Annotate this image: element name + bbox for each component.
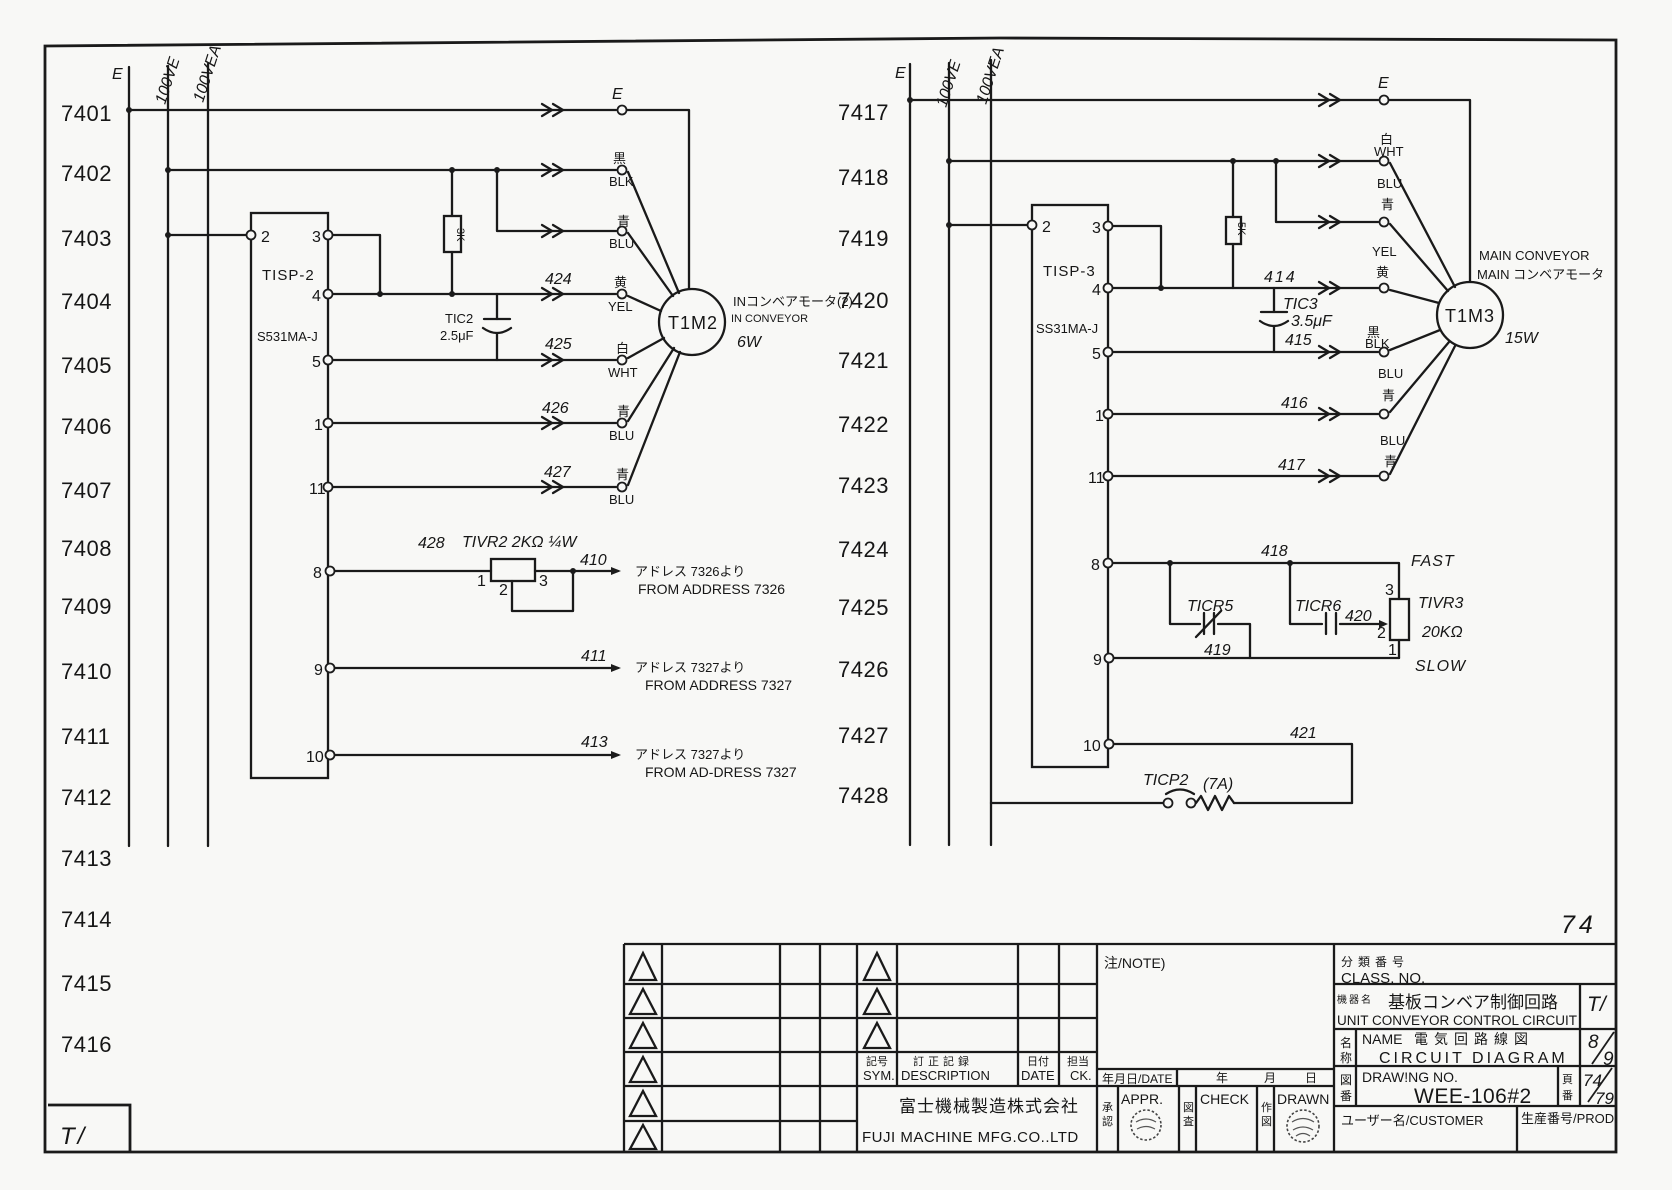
pin 2 xyxy=(247,231,256,240)
wire 7419 rail to pin2 xyxy=(949,224,1028,226)
svg-text:10: 10 xyxy=(1083,738,1101,755)
svg-text:訂正記録: 訂正記録 xyxy=(913,1054,973,1068)
svg-text:7401: 7401 xyxy=(61,101,112,126)
svg-text:415: 415 xyxy=(1285,332,1312,349)
svg-text:2: 2 xyxy=(499,582,508,599)
svg-text:CIRCUIT DIAGRAM: CIRCUIT DIAGRAM xyxy=(1379,1050,1568,1067)
pin 4 (right) xyxy=(1104,284,1113,293)
svg-text:SS31MA-J: SS31MA-J xyxy=(1036,321,1098,336)
wire TIVR2 wiper loop xyxy=(512,571,573,611)
wire 426 pin1 rail xyxy=(333,422,616,424)
svg-text:7409: 7409 xyxy=(61,594,112,619)
svg-text:青: 青 xyxy=(617,404,630,419)
svg-text:74: 74 xyxy=(1561,911,1597,939)
svg-text:生産番号/PROD.: 生産番号/PROD. xyxy=(1521,1111,1618,1126)
pin 2 (right) xyxy=(1028,221,1037,230)
svg-text:称: 称 xyxy=(1340,1051,1352,1065)
svg-text:WHT: WHT xyxy=(1374,144,1404,159)
wire BLK to motor xyxy=(1390,330,1440,350)
svg-text:T1M2: T1M2 xyxy=(668,313,718,333)
motor T1M3 xyxy=(1437,282,1503,348)
node BLU terminal row7 xyxy=(618,483,627,492)
wire 424 pin4 rail xyxy=(333,293,616,295)
svg-text:1: 1 xyxy=(1388,642,1397,659)
wire BLU to motor xyxy=(628,233,673,296)
svg-text:79: 79 xyxy=(1595,1089,1614,1108)
svg-text:7410: 7410 xyxy=(61,659,112,684)
svg-text:3: 3 xyxy=(539,573,548,590)
svg-text:頁: 頁 xyxy=(1562,1074,1573,1086)
svg-text:420: 420 xyxy=(1345,608,1372,625)
protector TICP2 7A xyxy=(991,802,1163,804)
svg-text:TIC2: TIC2 xyxy=(445,311,473,326)
resistor 5K xyxy=(1232,161,1234,217)
svg-text:注/NOTE): 注/NOTE) xyxy=(1104,955,1165,971)
svg-text:2.5μF: 2.5μF xyxy=(440,328,474,343)
svg-text:1: 1 xyxy=(1095,408,1104,425)
svg-text:7428: 7428 xyxy=(838,783,889,808)
svg-text:YEL: YEL xyxy=(1372,244,1397,259)
node E terminal (right) xyxy=(1380,96,1389,105)
wire BLU branch from 7418 xyxy=(1276,161,1378,222)
svg-text:青: 青 xyxy=(1382,388,1395,403)
wire 418 pin8 rail xyxy=(1113,563,1399,599)
class no. block xyxy=(1334,944,1616,1152)
wire 414 pin4 rail xyxy=(1113,287,1378,289)
svg-text:INコンベアモータ(2): INコンベアモータ(2) xyxy=(733,294,853,309)
wire 410 output xyxy=(535,570,618,572)
resistor 3K xyxy=(451,170,453,216)
pin 1 (right) xyxy=(1104,410,1113,419)
pin 11 (right) xyxy=(1104,472,1113,481)
revision table left xyxy=(624,944,1616,1152)
net 100VE bus (right) xyxy=(948,63,950,845)
svg-text:7422: 7422 xyxy=(838,412,889,437)
svg-text:UNIT CONVEYOR CONTROL CIRCUIT: UNIT CONVEYOR CONTROL CIRCUIT xyxy=(1337,1013,1577,1028)
svg-text:BLU: BLU xyxy=(1377,176,1402,191)
wire E to motor top xyxy=(627,110,689,289)
revision triangle L3 xyxy=(630,1023,656,1048)
node BLK terminal (right) xyxy=(1380,348,1389,357)
svg-text:MAIN コンベアモータ: MAIN コンベアモータ xyxy=(1477,267,1604,282)
svg-text:6W: 6W xyxy=(737,334,763,351)
revision triangle L5 xyxy=(630,1091,656,1116)
svg-text:7419: 7419 xyxy=(838,226,889,251)
wire BLU to motor xyxy=(628,348,674,421)
svg-text:414: 414 xyxy=(1264,269,1297,286)
pin 5 (right) xyxy=(1104,348,1113,357)
svg-text:E: E xyxy=(1378,75,1389,92)
pin 3 (right) xyxy=(1104,222,1113,231)
wire 7403 rail to pin2 xyxy=(168,234,247,236)
svg-text:10: 10 xyxy=(306,749,324,766)
wire 411 output xyxy=(335,667,618,669)
svg-text:図: 図 xyxy=(1261,1115,1272,1128)
svg-text:TIVR2 2KΩ ¼W: TIVR2 2KΩ ¼W xyxy=(462,534,578,551)
wire 427 pin11 rail xyxy=(333,486,616,488)
net 100VE bus (left) xyxy=(167,66,169,846)
svg-text:WHT: WHT xyxy=(608,365,638,380)
wire BLU to motor xyxy=(1390,346,1455,474)
node YEL terminal (right) xyxy=(1380,284,1389,293)
svg-text:418: 418 xyxy=(1261,543,1288,560)
node YEL terminal xyxy=(618,290,627,299)
svg-text:411: 411 xyxy=(581,648,607,665)
svg-text:担当: 担当 xyxy=(1067,1054,1089,1068)
wire 421 pin10 rail xyxy=(1114,744,1352,803)
node BLK terminal xyxy=(618,166,627,175)
wire BLU branch from 7402 xyxy=(497,170,616,231)
wire BLU to motor xyxy=(628,352,680,485)
svg-text:7427: 7427 xyxy=(838,723,889,748)
svg-text:FROM AD-DRESS 7327: FROM AD-DRESS 7327 xyxy=(645,764,797,780)
svg-text:426: 426 xyxy=(542,400,569,417)
svg-text:FUJI MACHINE MFG.CO..LTD: FUJI MACHINE MFG.CO..LTD xyxy=(862,1129,1079,1146)
svg-text:7418: 7418 xyxy=(838,165,889,190)
svg-text:8: 8 xyxy=(1588,1032,1599,1053)
wire 417 pin11 rail xyxy=(1113,475,1378,477)
svg-text:作: 作 xyxy=(1261,1101,1272,1114)
net E bus (left) xyxy=(128,67,130,846)
svg-text:電気回路線図: 電気回路線図 xyxy=(1414,1031,1534,1047)
wire 415 pin5 rail xyxy=(1113,351,1378,353)
svg-text:CHECK: CHECK xyxy=(1200,1091,1250,1107)
svg-text:査: 査 xyxy=(1183,1114,1194,1128)
pin 5 xyxy=(324,356,333,365)
svg-text:9: 9 xyxy=(1603,1049,1614,1070)
svg-text:図: 図 xyxy=(1340,1073,1352,1087)
svg-text:7420: 7420 xyxy=(838,288,889,313)
capacitor TIC2 2.5uF xyxy=(496,294,498,319)
wire pin8 to TIVR2 xyxy=(335,570,491,572)
svg-text:アドレス 7327より: アドレス 7327より xyxy=(635,660,745,675)
svg-text:7405: 7405 xyxy=(61,353,112,378)
svg-text:分類番号: 分類番号 xyxy=(1341,955,1409,969)
potentiometer TIVR3 20K ohm xyxy=(1390,599,1409,640)
svg-text:BLU: BLU xyxy=(1380,433,1405,448)
node WHT terminal (right) xyxy=(1380,157,1389,166)
svg-text:承: 承 xyxy=(1102,1101,1113,1114)
svg-text:E: E xyxy=(612,86,623,103)
svg-text:7413: 7413 xyxy=(61,846,112,871)
svg-text:NAME: NAME xyxy=(1362,1031,1402,1047)
svg-text:T1M3: T1M3 xyxy=(1445,306,1495,326)
wire BLK to motor xyxy=(628,172,679,293)
revision triangle M1 xyxy=(864,953,890,980)
svg-text:7411: 7411 xyxy=(61,724,110,749)
wire pin3 to pin4 rail xyxy=(333,235,380,294)
svg-text:黄: 黄 xyxy=(1376,265,1389,280)
connector T1SP-3 xyxy=(1032,205,1108,767)
svg-text:428: 428 xyxy=(418,535,445,552)
svg-text:日: 日 xyxy=(1305,1071,1317,1085)
svg-text:BLU: BLU xyxy=(1378,366,1403,381)
svg-text:4: 4 xyxy=(312,288,321,305)
svg-text:2: 2 xyxy=(261,229,270,246)
svg-text:番: 番 xyxy=(1562,1089,1573,1102)
svg-text:7414: 7414 xyxy=(61,907,112,932)
svg-text:TICP2: TICP2 xyxy=(1143,772,1188,789)
svg-text:E: E xyxy=(895,65,906,82)
svg-text:DRAWN: DRAWN xyxy=(1277,1091,1329,1107)
revision triangle L1 xyxy=(630,953,656,980)
svg-text:7406: 7406 xyxy=(61,414,112,439)
svg-text:TISP-2: TISP-2 xyxy=(262,267,315,284)
svg-text:3: 3 xyxy=(312,229,321,246)
svg-text:413: 413 xyxy=(581,734,608,751)
revision triangle M2 xyxy=(864,989,890,1014)
svg-text:TIVR3: TIVR3 xyxy=(1418,595,1463,612)
svg-text:YEL: YEL xyxy=(608,299,633,314)
svg-text:月: 月 xyxy=(1264,1071,1276,1085)
pin 10 xyxy=(326,751,335,760)
svg-text:年月日/DATE: 年月日/DATE xyxy=(1102,1072,1172,1086)
node BLU terminal (right r7) xyxy=(1380,472,1389,481)
svg-text:4: 4 xyxy=(1092,282,1101,299)
wire 7402 BLK rail xyxy=(168,169,616,171)
svg-text:BLK: BLK xyxy=(1365,336,1390,351)
pin 4 xyxy=(324,290,333,299)
svg-text:E: E xyxy=(112,66,123,83)
svg-text:名: 名 xyxy=(1340,1035,1352,1050)
wire pin3 to pin4 rail (right) xyxy=(1113,226,1161,288)
net E bus (right) xyxy=(909,64,911,845)
svg-text:T/: T/ xyxy=(1587,993,1608,1016)
revision triangle M3 xyxy=(864,1023,890,1048)
svg-text:410: 410 xyxy=(580,552,607,569)
svg-text:TISP-3: TISP-3 xyxy=(1043,263,1096,280)
wire 425 pin5 rail xyxy=(333,359,616,361)
svg-text:7415: 7415 xyxy=(61,971,112,996)
approval row xyxy=(1118,1086,1274,1152)
capacitor TICR6 xyxy=(1290,563,1322,624)
svg-text:IN CONVEYOR: IN CONVEYOR xyxy=(731,313,808,325)
capacitor TIC3 3.5uF xyxy=(1273,288,1275,312)
svg-text:番: 番 xyxy=(1340,1089,1352,1103)
node BLU terminal (right r6) xyxy=(1380,410,1389,419)
svg-text:S531MA-J: S531MA-J xyxy=(257,329,318,344)
pin 8 (right) xyxy=(1104,559,1113,568)
wire 7418 WHT rail xyxy=(949,160,1378,162)
svg-text:15W: 15W xyxy=(1505,330,1540,347)
svg-text:SLOW: SLOW xyxy=(1415,658,1467,675)
wire 7401 E rail xyxy=(129,109,616,111)
svg-text:青: 青 xyxy=(617,214,630,229)
svg-text:8: 8 xyxy=(1091,557,1100,574)
svg-text:アドレス 7327より: アドレス 7327より xyxy=(635,747,745,762)
svg-text:416: 416 xyxy=(1281,395,1308,412)
svg-text:日付: 日付 xyxy=(1027,1055,1049,1068)
svg-text:7423: 7423 xyxy=(838,473,889,498)
revision triangle L2 xyxy=(630,989,656,1014)
svg-text:TICR5: TICR5 xyxy=(1187,598,1233,615)
svg-text:7426: 7426 xyxy=(838,657,889,682)
node WHT terminal xyxy=(618,356,627,365)
svg-text:WEE-106#2: WEE-106#2 xyxy=(1414,1085,1532,1108)
pin 10 (right) xyxy=(1105,740,1114,749)
pin 9 (right) xyxy=(1105,654,1114,663)
wire WHT to motor xyxy=(628,338,664,358)
wire YEL to motor xyxy=(628,296,661,311)
revision table middle xyxy=(897,944,1097,1152)
svg-text:7425: 7425 xyxy=(838,595,889,620)
svg-text:ユーザー名/CUSTOMER: ユーザー名/CUSTOMER xyxy=(1341,1113,1484,1128)
svg-text:9: 9 xyxy=(314,662,323,679)
svg-text:DATE: DATE xyxy=(1021,1068,1055,1083)
wire E to motor top (right) xyxy=(1389,100,1470,282)
svg-text:MAIN CONVEYOR: MAIN CONVEYOR xyxy=(1479,248,1590,263)
svg-text:419: 419 xyxy=(1204,642,1231,659)
net 100VEA bus (left) xyxy=(207,64,209,846)
svg-text:黒: 黒 xyxy=(613,151,626,166)
svg-text:3K: 3K xyxy=(454,228,466,242)
wire BLU to motor xyxy=(1390,342,1449,412)
svg-text:記号: 記号 xyxy=(866,1054,888,1068)
svg-text:機器名: 機器名 xyxy=(1337,993,1373,1006)
svg-text:富士機械製造株式会社: 富士機械製造株式会社 xyxy=(899,1097,1079,1116)
svg-text:BLU: BLU xyxy=(609,492,634,507)
pin 8 xyxy=(326,567,335,576)
svg-text:黄: 黄 xyxy=(614,275,627,290)
svg-text:アドレス 7326より: アドレス 7326より xyxy=(635,564,745,579)
svg-text:SYM.: SYM. xyxy=(863,1068,895,1083)
sheet code box T1 (bottom-left) xyxy=(48,1105,130,1152)
svg-text:7402: 7402 xyxy=(61,161,112,186)
svg-text:(7A): (7A) xyxy=(1203,776,1233,793)
stamp (APPR) xyxy=(1131,1110,1161,1140)
revision triangle L6 xyxy=(630,1125,656,1149)
svg-text:年: 年 xyxy=(1216,1071,1228,1085)
node BLU terminal row6 xyxy=(618,419,627,428)
wire YEL to motor xyxy=(1390,290,1439,303)
svg-text:APPR.: APPR. xyxy=(1121,1091,1163,1107)
svg-text:1: 1 xyxy=(477,573,486,590)
svg-text:11: 11 xyxy=(1088,470,1105,487)
node BLU terminal (right r3) xyxy=(1380,218,1389,227)
svg-text:認: 認 xyxy=(1102,1114,1113,1128)
node E terminal xyxy=(618,106,627,115)
pin 3 xyxy=(324,231,333,240)
wire pin1 TIVR3 to pin9 rail xyxy=(1398,640,1400,658)
capacitor TICR5 xyxy=(1170,563,1200,624)
svg-text:7416: 7416 xyxy=(61,1032,112,1057)
node BLU terminal row3 xyxy=(618,227,627,236)
svg-text:5K: 5K xyxy=(1235,222,1247,236)
svg-text:T/: T/ xyxy=(60,1123,87,1150)
svg-text:FROM ADDRESS 7326: FROM ADDRESS 7326 xyxy=(638,581,785,597)
svg-text:BLU: BLU xyxy=(609,428,634,443)
svg-text:2: 2 xyxy=(1042,219,1051,236)
net 100VEA bus (right) xyxy=(990,60,992,845)
pin 9 xyxy=(326,664,335,673)
svg-text:DESCRIPTION: DESCRIPTION xyxy=(901,1068,990,1083)
svg-text:青: 青 xyxy=(1381,197,1394,212)
revision triangle L4 xyxy=(630,1057,656,1082)
svg-text:3: 3 xyxy=(1092,220,1101,237)
svg-text:DRAW!NG NO.: DRAW!NG NO. xyxy=(1362,1069,1458,1085)
wire 419 pin9 rail xyxy=(1114,657,1399,659)
svg-text:3: 3 xyxy=(1385,582,1394,599)
svg-text:白: 白 xyxy=(616,341,629,356)
svg-text:424: 424 xyxy=(545,271,572,288)
svg-text:421: 421 xyxy=(1290,725,1317,742)
svg-text:8: 8 xyxy=(313,565,322,582)
svg-text:青: 青 xyxy=(616,467,629,482)
wire 416 pin1 rail xyxy=(1113,413,1378,415)
svg-text:基板コンベア制御回路: 基板コンベア制御回路 xyxy=(1388,993,1558,1012)
svg-text:7421: 7421 xyxy=(838,348,889,373)
svg-text:427: 427 xyxy=(544,464,572,481)
svg-text:図: 図 xyxy=(1183,1101,1194,1114)
wire 413 output xyxy=(335,754,618,756)
motor T1M2 xyxy=(659,289,725,355)
connector T1SP-2 xyxy=(251,213,328,778)
svg-text:7417: 7417 xyxy=(838,100,889,125)
svg-text:3.5μF: 3.5μF xyxy=(1291,313,1333,330)
wire BLU to motor xyxy=(1390,224,1448,291)
svg-text:7408: 7408 xyxy=(61,536,112,561)
svg-text:2: 2 xyxy=(1377,625,1386,642)
wire WHT to motor xyxy=(1390,163,1455,287)
svg-text:7412: 7412 xyxy=(61,785,112,810)
svg-text:7404: 7404 xyxy=(61,289,112,314)
svg-text:TICR6: TICR6 xyxy=(1295,598,1341,615)
svg-text:425: 425 xyxy=(545,336,572,353)
svg-text:TIC3: TIC3 xyxy=(1283,296,1318,313)
svg-text:7407: 7407 xyxy=(61,478,112,503)
svg-text:417: 417 xyxy=(1278,457,1306,474)
svg-text:5: 5 xyxy=(312,354,321,371)
date row xyxy=(1097,1069,1334,1086)
svg-text:CLASS. NO.: CLASS. NO. xyxy=(1341,970,1425,987)
svg-text:FROM ADDRESS 7327: FROM ADDRESS 7327 xyxy=(645,677,792,693)
stamp (DRAWN) xyxy=(1287,1110,1319,1142)
svg-text:20KΩ: 20KΩ xyxy=(1421,624,1463,641)
potentiometer TIVR2 2K ohm quarter W xyxy=(491,559,535,581)
wire 7417 E rail xyxy=(910,99,1378,101)
pin 1 xyxy=(324,419,333,428)
svg-text:7403: 7403 xyxy=(61,226,112,251)
svg-text:7424: 7424 xyxy=(838,537,889,562)
svg-text:1: 1 xyxy=(314,417,323,434)
pin 11 xyxy=(324,483,333,492)
svg-text:11: 11 xyxy=(309,481,326,498)
svg-text:FAST: FAST xyxy=(1411,553,1455,570)
svg-text:9: 9 xyxy=(1093,652,1102,669)
svg-text:5: 5 xyxy=(1092,346,1101,363)
svg-text:CK.: CK. xyxy=(1070,1068,1092,1083)
